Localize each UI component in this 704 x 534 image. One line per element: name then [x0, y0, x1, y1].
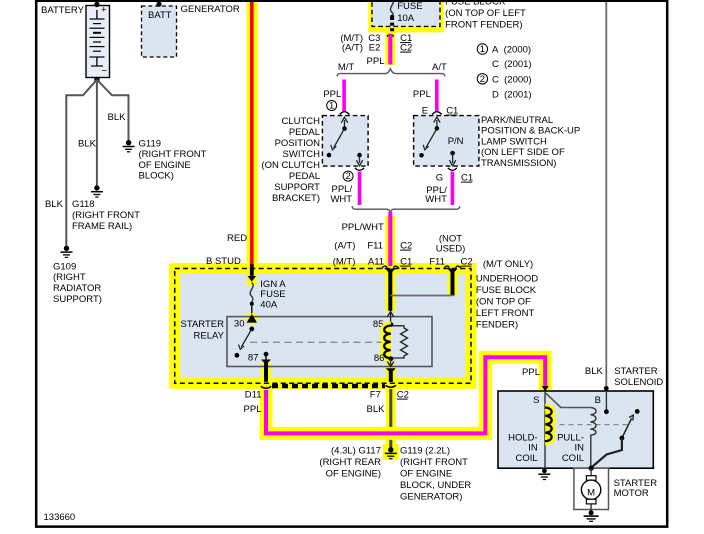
svg-text:PPL/WHT: PPL/WHT: [342, 222, 384, 233]
wire highlight: underhood fuse block border: [175, 269, 471, 384]
wire highlight: PPL/WHT above fuse block: [385, 216, 395, 268]
svg-text:P/N: P/N: [448, 136, 464, 147]
wire BLK battery to G119: [97, 80, 129, 143]
starter relay box: [227, 317, 432, 367]
svg-text:POSITION & BACK-UP: POSITION & BACK-UP: [481, 126, 580, 137]
connector labels A/T F11 C2: [334, 241, 412, 252]
svg-text:(M/T ONLY): (M/T ONLY): [483, 259, 533, 270]
wire highlight: pin86 F7 connector: [384, 361, 398, 390]
svg-text:PPL: PPL: [522, 367, 540, 378]
svg-text:F7: F7: [370, 390, 381, 401]
wire highlight: PPL route D11 to solenoid S: [266, 357, 545, 433]
svg-text:2: 2: [345, 171, 350, 182]
BLK label (G109 wire): [45, 199, 64, 210]
UNDERHOOD FUSE BLOCK label: [476, 274, 538, 331]
M/T ONLY label: [483, 259, 533, 270]
wire F11 stub (not used): [449, 268, 457, 295]
note 1: [477, 44, 531, 70]
ground G118: [91, 185, 103, 197]
svg-text:PPL: PPL: [323, 89, 341, 100]
brace merge PPL/WHT: [352, 206, 460, 213]
wire highlight: red battery feed B STUD: [247, 0, 258, 268]
STARTER MOTOR label: [614, 478, 658, 499]
svg-text:B: B: [595, 395, 601, 406]
battery label: [41, 5, 85, 16]
connector labels C3/C1 E2/C2: [340, 33, 412, 54]
svg-text:87: 87: [248, 353, 259, 364]
svg-text:OF ENGINE: OF ENGINE: [400, 469, 452, 480]
svg-text:G109: G109: [53, 262, 76, 273]
svg-text:RADIATOR: RADIATOR: [53, 283, 101, 294]
svg-text:COIL: COIL: [516, 453, 538, 464]
G117 label: [319, 446, 381, 480]
svg-text:F11: F11: [367, 241, 383, 252]
park/neutral position switch box: [414, 116, 479, 167]
pin 85 arrow: [387, 312, 394, 327]
BLK label (G118 wire): [78, 139, 97, 150]
svg-text:A/T: A/T: [432, 62, 447, 73]
svg-text:USED): USED): [436, 244, 466, 255]
wire not-used jumper: [390, 295, 452, 297]
BLK label (F7 wire): [367, 404, 386, 415]
battery negative junction: [94, 77, 100, 83]
svg-text:133660: 133660: [44, 512, 76, 523]
PPL label (D11): [244, 404, 262, 415]
D11 connector: [261, 360, 271, 382]
svg-text:OF ENGINE): OF ENGINE): [326, 469, 381, 480]
wire highlight: F11 not-used stub: [448, 268, 458, 296]
svg-text:IN: IN: [528, 443, 538, 454]
svg-text:D (2001): D (2001): [492, 90, 532, 101]
wire highlight: fuse block top: [368, 0, 443, 32]
wire highlight: BLK F7 to ground: [383, 387, 399, 460]
svg-text:GENERATOR): GENERATOR): [400, 492, 462, 503]
wire PPL/WHT clutch bottom: [358, 172, 362, 206]
PPL label (A/T): [413, 89, 431, 100]
wire PPL D11 to solenoid S: [266, 357, 549, 433]
BLK label (G119 wire): [108, 112, 127, 123]
svg-text:PPL: PPL: [367, 56, 385, 67]
svg-text:FRAME RAIL): FRAME RAIL): [72, 221, 132, 232]
svg-text:RELAY: RELAY: [194, 331, 225, 342]
svg-text:(ON TOP OF LEFT: (ON TOP OF LEFT: [445, 8, 526, 19]
NOT USED label: [436, 234, 466, 255]
STARTER SOLENOID label: [614, 366, 663, 388]
wire PPL M/T branch: [342, 80, 346, 113]
B STUD terminal plug: [248, 264, 256, 281]
svg-text:SUPPORT): SUPPORT): [53, 294, 102, 305]
starter motor box: [574, 468, 609, 509]
wire PPL A/T branch: [435, 80, 439, 113]
M/T label: [338, 62, 355, 73]
G109 label: [53, 262, 102, 306]
wire PPL fuse to brace: [388, 34, 392, 65]
pin 86 arrow: [387, 356, 394, 366]
svg-text:STARTER: STARTER: [181, 319, 225, 330]
svg-text:PEDAL: PEDAL: [289, 171, 320, 182]
svg-text:RED: RED: [227, 233, 247, 244]
svg-text:E2: E2: [369, 43, 381, 54]
svg-text:BRACKET): BRACKET): [272, 193, 320, 204]
svg-text:STARTER: STARTER: [614, 366, 658, 377]
underhood fuse block box fill: [175, 269, 471, 384]
PPL/WHT label (right): [425, 185, 447, 205]
connector cup D11 exit: [261, 386, 271, 388]
RED label: [227, 233, 247, 244]
circled 2 marker: [343, 171, 353, 182]
svg-text:LEFT FRONT: LEFT FRONT: [476, 308, 535, 319]
svg-text:(4.3L) G117: (4.3L) G117: [331, 446, 381, 457]
svg-text:BLK: BLK: [585, 366, 604, 377]
ground G117/G119: [385, 447, 397, 459]
starter motor M1: [581, 466, 600, 511]
wire BLK solenoid B feed: [604, 0, 609, 391]
svg-text:S: S: [533, 395, 539, 406]
svg-text:(RIGHT FRONT: (RIGHT FRONT: [400, 457, 468, 468]
svg-text:PPL: PPL: [413, 89, 431, 100]
PPL/WHT label (merged): [342, 222, 384, 233]
B STUD label: [206, 256, 241, 267]
svg-text:BLK: BLK: [108, 112, 127, 123]
svg-text:(ON LEFT SIDE OF: (ON LEFT SIDE OF: [481, 147, 565, 158]
wire RED B STUD: [250, 0, 254, 266]
wire highlight: PPL below fuse: [385, 31, 395, 65]
wire S terminal: [544, 391, 546, 468]
relay coil (highlighted): [384, 326, 391, 359]
svg-text:A (2000): A (2000): [492, 45, 531, 56]
svg-text:BLK: BLK: [78, 139, 97, 150]
FUSE 10A label: [397, 1, 422, 24]
svg-text:POSITION: POSITION: [275, 138, 321, 149]
brace split M/T A/T: [337, 69, 445, 77]
solenoid dashed link: [560, 424, 633, 426]
svg-text:CLUTCH: CLUTCH: [281, 116, 320, 127]
wire highlight: fuse to pin30: [245, 268, 259, 326]
svg-text:(ON CLUTCH: (ON CLUTCH: [261, 160, 320, 171]
connector cup P/N top: [432, 112, 442, 115]
svg-text:BATT: BATT: [148, 10, 172, 21]
connector cup F7 exit: [386, 385, 396, 387]
ground G119: [123, 140, 135, 152]
svg-text:10A: 10A: [397, 13, 415, 24]
svg-text:SUPPORT: SUPPORT: [274, 182, 320, 193]
F7 / C2 labels: [370, 390, 409, 401]
svg-text:G119: G119: [139, 139, 162, 150]
svg-text:FRONT FENDER): FRONT FENDER): [445, 19, 522, 30]
svg-text:(RIGHT REAR: (RIGHT REAR: [319, 457, 381, 468]
connector cup clutch bottom: [355, 168, 364, 171]
svg-text:1: 1: [329, 101, 334, 112]
svg-text:MOTOR: MOTOR: [614, 488, 649, 499]
fuse block (top, dashed): [372, 0, 440, 26]
G / C1 labels: [436, 173, 473, 184]
PPL label (M/T): [323, 89, 341, 100]
wire A11 into fuse block (thick black): [387, 268, 395, 311]
svg-text:PEDAL: PEDAL: [289, 127, 320, 138]
svg-text:(M/T): (M/T): [333, 257, 356, 268]
svg-text:FUSE BLOCK: FUSE BLOCK: [476, 285, 537, 296]
wire PPL/WHT merged: [388, 212, 392, 266]
relay coil resistor: [391, 326, 408, 358]
svg-text:G: G: [436, 173, 443, 184]
svg-text:(ON TOP OF: (ON TOP OF: [476, 297, 531, 308]
svg-text:FUSE: FUSE: [260, 289, 285, 300]
svg-text:(RIGHT FRONT: (RIGHT FRONT: [72, 210, 140, 221]
svg-text:OF ENGINE: OF ENGINE: [139, 160, 191, 171]
starter solenoid box: [498, 391, 653, 468]
STARTER RELAY label: [181, 319, 225, 342]
S label: [533, 395, 539, 406]
HOLD-IN COIL label: [508, 433, 538, 465]
svg-text:B STUD: B STUD: [206, 256, 241, 267]
battery B1: [86, 5, 110, 78]
E / C1 labels: [422, 106, 459, 117]
connector labels F11 C2 (not used): [429, 257, 472, 268]
connector cups F11 entry: [444, 266, 462, 269]
svg-text:A11: A11: [368, 257, 384, 268]
PPL label (top): [367, 56, 385, 67]
svg-text:−: −: [102, 66, 108, 77]
svg-text:GENERATOR: GENERATOR: [181, 4, 240, 15]
solenoid switch: [589, 409, 640, 471]
D11 label: [245, 390, 262, 401]
PPL label (solenoid): [522, 367, 540, 378]
svg-text:C (2000): C (2000): [492, 75, 532, 86]
note 2: [477, 74, 531, 101]
connector labels M/T A11 C1: [333, 257, 413, 268]
connector cup below fuse block: [387, 34, 394, 36]
B label: [595, 395, 601, 406]
svg-text:LAMP SWITCH: LAMP SWITCH: [481, 136, 547, 147]
wire highlight: pin87 D11 connector: [259, 360, 273, 390]
ground G109: [61, 246, 73, 258]
svg-text:PPL: PPL: [244, 404, 262, 415]
fuse F 10A symbol: [390, 0, 394, 32]
svg-text:G119 (2.2L): G119 (2.2L): [400, 446, 450, 457]
svg-text:IN: IN: [575, 443, 585, 454]
svg-text:1: 1: [480, 44, 485, 55]
connector cup P/N bottom: [448, 168, 457, 171]
svg-text:G118: G118: [72, 199, 95, 210]
86 label: [374, 353, 385, 364]
svg-text:BLK: BLK: [367, 404, 386, 415]
generator feed wire (red): [156, 0, 161, 7]
underhood fuse block dashed border: [175, 269, 471, 384]
G118 label: [72, 199, 140, 232]
87 label: [248, 353, 259, 364]
svg-text:86: 86: [374, 353, 385, 364]
P/N switch symbol: [419, 117, 456, 166]
A/T label: [432, 62, 447, 73]
wire highlight: A11 wire: [385, 268, 395, 312]
wire B terminal: [604, 391, 609, 414]
G119 label: [139, 139, 207, 182]
wire BLK battery to G118: [96, 80, 98, 188]
svg-text:M: M: [587, 487, 595, 498]
svg-text:E: E: [422, 106, 428, 117]
connector cups A11 entry: [382, 266, 400, 269]
svg-text:BLK: BLK: [45, 199, 64, 210]
svg-text:+: +: [101, 5, 107, 16]
pull-in coil: [590, 408, 596, 469]
svg-text:FUSE: FUSE: [397, 1, 422, 12]
FUSE BLOCK location label: [445, 0, 526, 30]
svg-text:M/T: M/T: [338, 62, 355, 73]
hold-in coil (highlighted): [545, 408, 552, 442]
svg-text:UNDERHOOD: UNDERHOOD: [476, 274, 538, 285]
30 label: [234, 319, 245, 330]
generator label: [181, 4, 240, 15]
svg-text:PARK/NEUTRAL: PARK/NEUTRAL: [481, 115, 553, 126]
thick dashed internal wire D11 to F7: [272, 384, 385, 388]
85 label: [373, 319, 384, 330]
svg-text:SWITCH: SWITCH: [283, 149, 321, 160]
svg-text:2: 2: [480, 74, 485, 85]
svg-text:BLOCK): BLOCK): [139, 171, 174, 182]
battery positive feed wire (red): [94, 0, 99, 7]
svg-text:TRANSMISSION): TRANSMISSION): [481, 158, 556, 169]
relay internal dashed link: [250, 341, 386, 343]
PPL/WHT label (left): [330, 184, 352, 205]
BLK label (B wire): [585, 366, 604, 377]
P/N label: [448, 136, 464, 147]
svg-text:COIL: COIL: [562, 453, 584, 464]
wire BLK F7 to ground: [389, 389, 392, 448]
wire PPL/WHT P/N bottom: [451, 172, 455, 206]
circled 1 marker: [327, 101, 337, 112]
svg-text:C (2001): C (2001): [492, 59, 532, 70]
svg-text:SOLENOID: SOLENOID: [614, 377, 663, 388]
svg-text:40A: 40A: [260, 300, 278, 311]
svg-text:(A/T): (A/T): [342, 43, 363, 54]
connector cup clutch top: [340, 112, 350, 115]
F7 connector: [386, 368, 396, 382]
svg-text:(RIGHT FRONT: (RIGHT FRONT: [139, 149, 207, 160]
wire S to pull-in coil: [545, 393, 591, 408]
wire BLK battery to G109: [66, 80, 97, 248]
diagram id 133660: [44, 512, 76, 523]
svg-text:(A/T): (A/T): [334, 241, 355, 252]
svg-text:(RIGHT: (RIGHT: [53, 272, 86, 283]
svg-text:D11: D11: [245, 390, 262, 401]
svg-text:F11: F11: [429, 257, 445, 268]
PULL-IN COIL label: [557, 433, 584, 465]
pin 30 arrow: [247, 314, 257, 331]
svg-text:BLOCK, UNDER: BLOCK, UNDER: [400, 480, 471, 491]
clutch pedal position switch box: [322, 116, 368, 167]
svg-text:30: 30: [234, 319, 245, 330]
generator G1 (dashed box): [142, 6, 177, 57]
IGN A FUSE 40A label: [260, 279, 286, 311]
clutch switch symbol: [327, 117, 363, 166]
park/neutral switch label: [481, 115, 580, 169]
G119 (2.2L) label: [400, 446, 471, 503]
relay switch blade: [235, 329, 252, 358]
svg-text:FENDER): FENDER): [476, 320, 518, 331]
svg-text:WHT: WHT: [330, 194, 352, 205]
svg-text:WHT: WHT: [425, 194, 447, 205]
ground starter motor: [584, 510, 599, 521]
svg-text:BATTERY: BATTERY: [41, 5, 85, 16]
pin 87: [264, 352, 269, 361]
fuse IGN A 40A symbol: [250, 283, 254, 314]
ground S coil: [538, 468, 550, 479]
clutch switch label: [261, 116, 320, 204]
